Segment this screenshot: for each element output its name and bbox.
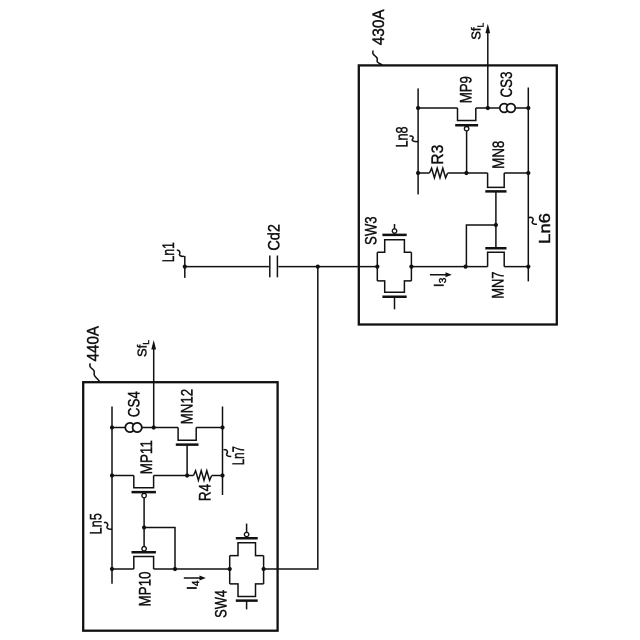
resistor R3 — [430, 168, 448, 178]
box 430A — [359, 65, 557, 324]
wire vertical drop to 440A — [264, 267, 318, 569]
wire Ln1 to Cd2 — [185, 266, 269, 268]
node junction at drop — [316, 265, 320, 269]
wire R4 to Ln7 — [212, 475, 223, 477]
wire R3 to MN8 — [448, 172, 488, 174]
leader squiggle 430A — [373, 51, 383, 66]
capacitor Cd2 — [269, 256, 271, 278]
svg-text:Ln8: Ln8 — [393, 127, 412, 148]
resistor R4 — [194, 471, 212, 481]
transistor MN7 — [485, 225, 506, 267]
svg-text:MP11: MP11 — [137, 440, 156, 474]
wire MN8 to Ln6 — [504, 172, 528, 174]
rail Ln7 — [222, 407, 224, 496]
svg-text:CS3: CS3 — [497, 72, 516, 98]
transistor MP10 — [132, 547, 156, 570]
svg-text:Ln6: Ln6 — [537, 213, 554, 244]
wire Cd2 to SW3 — [278, 266, 377, 268]
svg-text:R4: R4 — [196, 484, 215, 501]
transistor MP11 — [132, 476, 156, 547]
svg-text:MP9: MP9 — [457, 76, 476, 103]
wire MP11 to R4 — [154, 475, 194, 477]
wire SW3 to MN7 rail — [411, 266, 487, 268]
rail Ln8 — [417, 88, 419, 194]
current source CS3 — [500, 104, 509, 113]
svg-text:430A: 430A — [369, 9, 388, 46]
svg-text:Ln1: Ln1 — [159, 242, 178, 262]
wire MP9 to CS3 — [476, 107, 500, 109]
svg-text:MP10: MP10 — [135, 572, 154, 607]
svg-text:MN8: MN8 — [489, 141, 508, 169]
annotation I3 arrow — [430, 274, 446, 276]
wire R3 rail left — [418, 172, 429, 174]
box 440A — [83, 382, 277, 631]
svg-text:Cd2: Cd2 — [265, 224, 284, 251]
switch SW4 transmission gate — [228, 524, 266, 610]
wire MP11 MP10 gate node — [144, 528, 175, 570]
annotation I4 arrow — [184, 577, 201, 579]
svg-text:440A: 440A — [83, 325, 102, 361]
leader squiggle Ln8 — [409, 136, 417, 142]
svg-text:SW4: SW4 — [212, 590, 231, 618]
wire MN7 to Ln6 — [504, 266, 528, 268]
wire MN12 to Ln7 — [196, 427, 222, 429]
wire top rail 430A left — [418, 107, 457, 109]
transistor MP9 — [455, 108, 478, 173]
wire CS4 to MN12 — [142, 427, 178, 429]
leader squiggle Ln1 — [177, 250, 184, 256]
wire CS3 to Ln6 — [515, 107, 528, 109]
svg-text:MN12: MN12 — [178, 389, 197, 425]
svg-text:Ln7: Ln7 — [229, 446, 248, 465]
rail Ln5 — [111, 407, 113, 584]
svg-text:MN7: MN7 — [488, 272, 507, 299]
svg-text:R3: R3 — [428, 145, 447, 165]
leader squiggle 440A — [90, 363, 100, 381]
current source CS4 — [125, 423, 134, 432]
transistor MN8 — [485, 173, 506, 225]
output arrow SfL 430A — [487, 33, 489, 109]
wire bottom rail 440A — [112, 568, 134, 570]
output arrow SfL 440A — [153, 349, 155, 428]
svg-text:CS4: CS4 — [125, 391, 144, 417]
wire R4 rail left — [112, 475, 134, 477]
leader squiggle Ln7 — [224, 450, 232, 457]
wire top rail 440A left — [112, 427, 125, 429]
leader squiggle Ln6 — [529, 217, 537, 224]
rail Ln6 — [527, 88, 529, 282]
wire MN7 gate node — [466, 225, 496, 267]
node Ln1 terminal — [184, 256, 186, 278]
svg-text:SW3: SW3 — [362, 216, 381, 245]
transistor MN12 — [176, 428, 199, 476]
leader squiggle Ln5 — [104, 522, 112, 529]
switch SW3 transmission gate — [375, 224, 413, 309]
svg-text:Ln5: Ln5 — [86, 513, 105, 534]
